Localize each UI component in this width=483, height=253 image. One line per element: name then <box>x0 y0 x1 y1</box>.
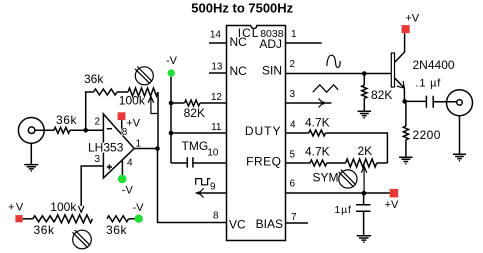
wire rail corner to TMG cap <box>171 162 187 164</box>
op-amp pin8 red square +V <box>118 112 126 120</box>
wire pin13 stub <box>209 72 227 74</box>
op-amp pin8 number <box>121 129 127 136</box>
svg-text:SYM: SYM <box>313 171 339 185</box>
connector J1 BNC input <box>18 117 44 143</box>
wire pin3 stub with arrow <box>286 102 332 104</box>
transistor Q1 2N4400 base bar <box>391 53 394 87</box>
capacitor 1uf plates <box>356 205 371 212</box>
svg-text:9: 9 <box>210 182 216 193</box>
svg-text:36k: 36k <box>106 223 128 237</box>
transistor emitter with arrow <box>395 78 405 101</box>
svg-text:-V: -V <box>166 55 178 67</box>
wire cap to BNC out <box>434 101 457 103</box>
svg-text:4.7K: 4.7K <box>305 145 330 159</box>
svg-text:11: 11 <box>211 122 222 133</box>
wire rail to pin11 <box>171 132 227 134</box>
wire R36k to opamp pin2 <box>70 129 104 131</box>
wire between 36k and 100k <box>117 91 128 93</box>
resistor 36k feedback <box>94 89 118 95</box>
node emitter junction <box>402 99 407 104</box>
svg-text:2200: 2200 <box>413 128 441 142</box>
arrow pin3 right <box>319 99 324 108</box>
op-amp plus sign <box>107 164 112 169</box>
svg-text:ADJ: ADJ <box>259 37 282 51</box>
op-amp minus sign <box>107 128 112 130</box>
svg-text:10: 10 <box>207 148 219 159</box>
resistor 36k input <box>54 127 70 133</box>
svg-text:82K: 82K <box>371 88 392 102</box>
svg-text:NC: NC <box>230 64 248 78</box>
resistor 82K pin12 <box>185 100 201 106</box>
resistor 4.7K pin4 <box>309 130 326 136</box>
wire pin5 to resistor <box>286 162 311 164</box>
ground 2200 <box>399 157 413 163</box>
wire +V square to 36k <box>23 218 33 220</box>
svg-text:2: 2 <box>95 117 101 128</box>
node base junction <box>362 71 367 76</box>
svg-text:6: 6 <box>290 179 296 190</box>
capacitor TMG plates <box>187 157 193 167</box>
svg-text:.1 µf: .1 µf <box>416 78 442 90</box>
potentiometer 100k bias <box>56 215 93 223</box>
svg-text:1: 1 <box>291 29 297 40</box>
wire pin1 stub ADJ <box>286 42 322 44</box>
svg-text:8: 8 <box>213 211 219 222</box>
resistor 4.7K pin5 <box>310 160 327 166</box>
wire BNC stub down <box>30 143 32 164</box>
svg-text:13: 13 <box>211 62 223 73</box>
wiper 100k feedback arrow <box>151 96 158 113</box>
wire 2K to corner <box>377 162 388 164</box>
red square +V pin6 <box>390 189 399 198</box>
op-amp label LH353 <box>88 143 125 153</box>
svg-text:82K: 82K <box>184 106 205 120</box>
wire 36k to -V dot <box>129 218 135 220</box>
svg-text:4: 4 <box>127 157 133 168</box>
node output junction <box>155 146 160 151</box>
triangle wave glyph <box>313 85 338 92</box>
wire 1uf stem bottom <box>363 211 365 235</box>
resistor 36k bias right <box>107 216 129 222</box>
green dot -V bias <box>135 215 143 223</box>
svg-text:LH353: LH353 <box>88 141 124 155</box>
screw adjust SYM <box>339 170 357 188</box>
screw adjust 100k bias <box>73 230 92 249</box>
wire 4.7K pin4 to corner <box>326 133 388 163</box>
wire opamp output <box>134 148 158 150</box>
op IC U1 ICL8038 body <box>227 26 286 241</box>
svg-text:12: 12 <box>211 92 223 103</box>
svg-text:1µf: 1µf <box>335 204 352 216</box>
capacitor .1uf plates <box>426 96 433 108</box>
connector J2 BNC output <box>447 90 473 116</box>
sine wave glyph <box>327 55 340 67</box>
resistor 36k bias left <box>33 216 56 222</box>
wiper 2K arrow <box>363 167 365 194</box>
wire TMG cap to pin10 <box>194 162 227 164</box>
node pin6 junction <box>362 191 367 196</box>
green dot -V rail <box>168 69 175 76</box>
red square +V bias <box>15 215 22 222</box>
wiper 100k bias arrow <box>78 206 84 213</box>
svg-text:VC: VC <box>229 218 246 232</box>
wire pin4 stem <box>121 160 123 175</box>
svg-text:2: 2 <box>290 59 296 70</box>
wire BNC out stub <box>459 116 461 155</box>
svg-text:+V: +V <box>385 199 399 211</box>
ground BNC input <box>24 165 38 171</box>
svg-text:100k: 100k <box>119 93 146 107</box>
svg-text:36k: 36k <box>56 113 78 127</box>
wire pin9 stub with arrow <box>196 192 227 194</box>
ground BNC out <box>453 154 466 161</box>
potentiometer 100k feedback <box>128 88 158 96</box>
wire opamp pin3 <box>81 166 103 206</box>
svg-text:DUTY: DUTY <box>245 124 282 138</box>
square wave glyph pin9 <box>196 179 211 185</box>
node inverting input junction <box>83 128 88 133</box>
wire collector <box>395 33 405 62</box>
svg-text:BIAS: BIAS <box>256 217 283 231</box>
svg-text:4: 4 <box>290 120 296 131</box>
wire pin2 SIN to transistor base <box>286 73 392 75</box>
svg-text:36k: 36k <box>84 72 104 86</box>
wire 1uf stem top <box>363 193 365 204</box>
wire output down to pin8 VC <box>158 149 227 223</box>
svg-text:100k: 100k <box>50 200 77 214</box>
svg-text:14: 14 <box>210 30 222 41</box>
ground 82K pulldown <box>358 111 372 118</box>
wire emitter to cap <box>405 100 426 102</box>
wire 4.7K to 2K <box>327 162 346 164</box>
svg-text:5: 5 <box>290 150 296 161</box>
svg-text:-V: -V <box>122 185 134 197</box>
arrow pin9 left <box>199 188 204 197</box>
svg-text:+V: +V <box>8 202 25 214</box>
svg-text:7: 7 <box>291 212 297 223</box>
ground 1uf <box>357 236 372 242</box>
svg-text:3: 3 <box>95 154 101 165</box>
svg-text:+V: +V <box>126 117 140 129</box>
wire pin6 to +V square <box>286 192 391 194</box>
svg-text:500Hz to 7500Hz: 500Hz to 7500Hz <box>191 1 293 16</box>
wire -V rail <box>170 77 172 163</box>
wire pin8 stem <box>121 120 123 135</box>
op-amp U2 LH353 triangle <box>103 114 134 178</box>
op-amp pin4 green dot -V <box>118 175 127 184</box>
svg-text:TMG: TMG <box>182 139 209 153</box>
resistor 82K pulldown <box>363 74 365 86</box>
svg-text:3: 3 <box>290 89 296 100</box>
wire 100k right down to output node <box>157 92 159 149</box>
svg-text:2K: 2K <box>358 144 373 158</box>
svg-text:2N4400: 2N4400 <box>413 58 455 72</box>
red square +V transistor <box>402 25 410 33</box>
wire 82K to pin12 <box>200 102 227 104</box>
wire rail to 82K <box>171 102 185 104</box>
potentiometer 2K <box>346 159 377 167</box>
svg-text:NC: NC <box>230 35 248 49</box>
svg-text:-V: -V <box>133 202 145 214</box>
svg-text:4.7K: 4.7K <box>305 116 330 130</box>
node rail pin11 <box>169 131 174 136</box>
svg-text:SIN: SIN <box>262 64 282 78</box>
wire pin4 to resistor <box>286 132 309 134</box>
svg-text:36k: 36k <box>34 223 56 237</box>
svg-text:FREQ: FREQ <box>246 155 281 169</box>
wire pin14 stub <box>209 42 227 44</box>
wire BNC to R 36k <box>35 129 54 131</box>
screw adjust 100k feedback <box>135 67 153 85</box>
resistor 2200 <box>405 101 407 126</box>
wire pin7 stub BIAS <box>286 222 309 224</box>
wire junction up to feedback <box>86 92 94 130</box>
svg-text:+V: +V <box>405 12 419 24</box>
node rail pin12 <box>169 101 174 106</box>
